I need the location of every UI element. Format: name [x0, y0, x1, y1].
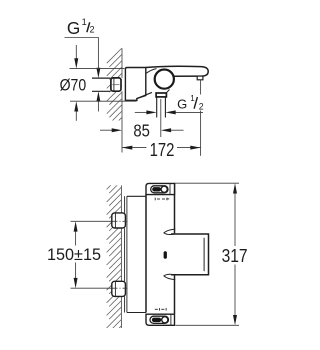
outlet pipe centre extension line: [160, 99, 162, 137]
dia70 arrow top: [75, 45, 77, 60]
dim 85 right tail+arrow: [168, 129, 184, 131]
slash of bottom G1/2: [194, 97, 197, 109]
dim 317 line upper segment: [234, 190, 236, 246]
dim 317 top extension line: [175, 182, 239, 184]
wall hatching (bottom view): [107, 175, 122, 341]
fillet escutcheon to knob: [146, 69, 157, 74]
svg-text:G: G: [67, 18, 80, 38]
G1/2 right arrow (points left at pipe): [172, 111, 203, 113]
bottom nut dash-dot centreline: [113, 287, 128, 289]
svg-text:317: 317: [222, 245, 248, 266]
svg-text:150±15: 150±15: [47, 245, 101, 264]
dim 150 top extension line: [71, 220, 112, 222]
dim 172 arrows: [122, 146, 132, 150]
dim 85 left tail+arrow: [100, 129, 116, 131]
spout (top view): [146, 66, 208, 76]
wall face extension line: [121, 121, 123, 153]
leader line from G1/2 to nut: [65, 38, 99, 73]
fitting to knob right segment: [166, 90, 170, 94]
spout block inner edge line: [203, 238, 205, 271]
bottom cap dark pill: [152, 318, 161, 323]
spout block bottom fillet hook: [164, 274, 175, 279]
wall (bottom view): [120, 185, 122, 328]
dim 317 bottom extension line: [176, 324, 240, 326]
escutcheon (top view): [125, 68, 145, 101]
bottom cap inner line: [170, 314, 172, 325]
dim 317 line lower segment: [234, 265, 236, 319]
bottom cap slot stadium: [150, 316, 169, 323]
bottom union nut (plan): [112, 281, 126, 296]
svg-text:2: 2: [90, 24, 95, 34]
dim 172 line right segment: [177, 147, 201, 149]
G1/2 bottom label text: [177, 94, 204, 112]
top cap dark pill: [152, 187, 161, 191]
inlet pipe (top view, behind wall): [92, 78, 110, 91]
handle slot mark: [164, 251, 167, 258]
svg-text:172: 172: [150, 140, 175, 160]
top nut dash-dot centreline: [113, 220, 128, 222]
spout block top fillet hook: [164, 229, 175, 234]
svg-text:2: 2: [199, 101, 204, 111]
top cap circle: [161, 186, 167, 192]
svg-text:1: 1: [82, 17, 87, 27]
top cap inner line: [169, 183, 171, 194]
dim 150 line lower segment: [75, 263, 77, 282]
bottom nut facet line: [114, 282, 116, 296]
leader arrow down to nut top: [96, 68, 100, 78]
aerator under spout: [197, 76, 203, 80]
mounting plate (double line): [125, 196, 127, 312]
dim 150 line upper segment: [75, 228, 77, 246]
top cap slot stadium: [151, 186, 168, 193]
top union nut (plan): [112, 213, 126, 228]
wall hatching (top view): [107, 48, 122, 130]
bottom cap circle: [162, 317, 168, 323]
dia70 extension line bottom: [70, 100, 137, 102]
svg-text:G: G: [177, 97, 187, 112]
dim 150 bottom extension line: [71, 287, 112, 289]
connector top edge: [127, 195, 146, 197]
top end cap (plan): [146, 183, 175, 194]
dia70 arrow bottom: [75, 111, 77, 121]
G1/2 left arrow (points right at pipe): [135, 111, 150, 113]
hidden marks under top cap: [155, 198, 169, 201]
top nut facet line: [114, 213, 116, 227]
G1/2 lower arrow up to nut bottom: [97, 98, 99, 112]
hidden marks above bottom cap: [155, 308, 166, 311]
body underside slant: [137, 92, 152, 98]
svg-text:85: 85: [133, 121, 150, 141]
dim text G1/2 (top label): [67, 17, 95, 38]
nut centreline dash: [112, 84, 119, 86]
union nut on inlet pipe: [111, 78, 121, 91]
svg-text:1: 1: [190, 94, 195, 103]
escutcheon bottom step: [125, 99, 136, 101]
svg-text:Ø70: Ø70: [60, 75, 87, 94]
wall (top view) hatched band: [121, 48, 123, 120]
spout block protrusion (plan): [171, 234, 209, 275]
dim 172 line left segment: [122, 147, 147, 149]
dia70 extension line top: [70, 68, 125, 70]
knob circle (thermostat handle, side view): [155, 70, 174, 89]
shower outlet pipe: [157, 97, 166, 117]
slash of top G1/2: [87, 22, 90, 32]
aerator extension line: [200, 80, 202, 95]
shower outlet fitting: [156, 93, 166, 97]
faucet body outline (plan): [146, 183, 175, 313]
bottom end cap (plan): [146, 314, 175, 325]
connector bottom edge: [127, 312, 146, 314]
